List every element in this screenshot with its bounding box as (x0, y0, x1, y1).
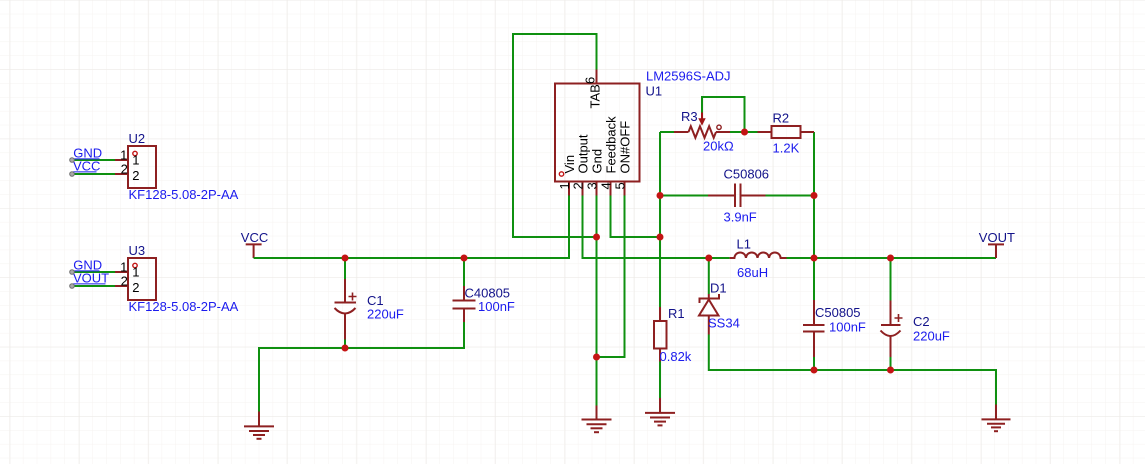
diode D1 SS34 (699, 281, 740, 335)
svg-text:U3: U3 (129, 243, 146, 258)
svg-text:VOUT: VOUT (979, 230, 1015, 245)
junction feedback (657, 234, 664, 241)
C2 plus sign (895, 314, 903, 322)
wire U1 Feedback pin4 (611, 196, 661, 238)
C1 plus sign (349, 293, 357, 301)
svg-text:R3: R3 (681, 109, 698, 124)
wire output rail to VOUT (787, 257, 997, 259)
svg-text:C2: C2 (913, 314, 930, 329)
net flag VOUT (979, 230, 1015, 258)
svg-text:2: 2 (132, 280, 139, 295)
wire C1 bottom (344, 340, 346, 349)
svg-text:Gnd: Gnd (589, 149, 604, 174)
U3 pin1 indicator circle (133, 263, 137, 267)
svg-text:SS34: SS34 (708, 316, 740, 331)
wire feedback rail vertical (659, 132, 661, 307)
svg-text:Output: Output (575, 134, 590, 173)
wire C50806 right lead (766, 195, 815, 197)
wire R3 to R2 (730, 131, 758, 133)
unconnected end dot U3 pin2 (70, 284, 75, 289)
U3 pin 1 stub (115, 271, 128, 273)
svg-text:VOUT: VOUT (73, 271, 109, 286)
junction C50806 right (811, 192, 818, 199)
svg-text:220uF: 220uF (367, 307, 404, 322)
unconnected end dot U2 pin1 (70, 158, 75, 163)
wire L1 left (709, 257, 730, 259)
svg-text:3.9nF: 3.9nF (724, 210, 757, 225)
svg-text:68uH: 68uH (737, 265, 768, 280)
D1 anode triangle (699, 300, 719, 316)
connector U2 body (115, 131, 239, 202)
svg-text:220uF: 220uF (913, 329, 950, 344)
U2 pin1 indicator circle (133, 151, 137, 155)
svg-text:L1: L1 (737, 237, 751, 252)
svg-text:100nF: 100nF (478, 299, 515, 314)
svg-text:KF128-5.08-2P-AA: KF128-5.08-2P-AA (129, 187, 239, 202)
capacitor C1 (polarized) (335, 279, 404, 340)
svg-text:D1: D1 (710, 281, 727, 296)
svg-text:KF128-5.08-2P-AA: KF128-5.08-2P-AA (129, 299, 239, 314)
svg-text:C50805: C50805 (815, 305, 861, 320)
svg-text:20kΩ: 20kΩ (703, 139, 734, 154)
net label GND (U3 pin1) (73, 258, 102, 273)
U2 pin 1 stub (115, 159, 128, 161)
svg-text:Feedback: Feedback (603, 116, 618, 174)
wire U3 pin2 (72, 285, 115, 287)
U1 pin 6 TAB stub (596, 70, 598, 84)
resistor R1 (654, 306, 692, 364)
net flag VCC (241, 230, 268, 258)
svg-text:VCC: VCC (73, 159, 100, 174)
junction L1 out (811, 255, 818, 262)
net label GND (U2 pin1) (73, 146, 102, 161)
unconnected end dot U3 pin1 (70, 270, 75, 275)
svg-text:R2: R2 (773, 111, 790, 126)
U2 pin 2 stub (115, 173, 128, 175)
svg-text:0.82k: 0.82k (660, 349, 692, 364)
junction C50806 left (657, 192, 664, 199)
wire D1 top (708, 258, 710, 294)
svg-text:1.2K: 1.2K (773, 141, 800, 156)
resistor R3 (trimmer) (674, 109, 734, 154)
unconnected end dot U2 pin2 (70, 172, 75, 177)
wire C2 top (890, 258, 892, 301)
wire C1 top (344, 258, 346, 279)
junction switch node D1/L1 (705, 255, 712, 262)
capacitor C40805 (453, 286, 515, 323)
svg-text:1: 1 (132, 153, 139, 168)
wire TAB loop to GND (513, 34, 597, 237)
wire U3 pin1 (72, 271, 115, 273)
svg-text:6: 6 (583, 77, 598, 84)
connector U3 body (115, 243, 239, 314)
C2 bottom arc plate (881, 331, 901, 337)
svg-text:5: 5 (613, 182, 628, 189)
junction C1 bottom (342, 345, 349, 352)
svg-text:VCC: VCC (241, 230, 268, 245)
svg-text:ON#OFF: ON#OFF (617, 121, 632, 174)
wire bottom-left ground rail (259, 322, 464, 412)
junction C40805 top (461, 255, 468, 262)
svg-text:1: 1 (120, 260, 127, 275)
wire U1 Output pin2 to switch node (583, 196, 709, 259)
svg-text:C50806: C50806 (724, 167, 770, 182)
inductor L1 (730, 237, 787, 281)
ground symbol (right) (982, 405, 1011, 432)
wire R3 wiper loop (702, 97, 745, 132)
wire C50805 bottom (813, 357, 815, 370)
junction R3 wiper R2 (741, 129, 748, 136)
R3 wiper arrow (701, 113, 703, 119)
svg-text:R1: R1 (668, 306, 685, 321)
U1 pin 3 stub (596, 182, 598, 196)
U1 pin 4 stub (610, 182, 612, 196)
U1 pin 2 stub (582, 182, 584, 196)
svg-text:1: 1 (120, 148, 127, 163)
wire U2 pin1 (72, 159, 115, 161)
junction ON#OFF-GND (593, 354, 600, 361)
C1 bottom arc plate (335, 308, 356, 314)
svg-text:2: 2 (132, 168, 139, 183)
svg-text:100nF: 100nF (829, 320, 866, 335)
svg-text:4: 4 (599, 182, 614, 189)
capacitor C50806 (708, 167, 769, 225)
wire C2 bottom (890, 357, 892, 370)
op-amp U1 LM2596S-ADJ body (555, 69, 731, 196)
ground symbol (left) (244, 412, 274, 439)
U3 pin 2 stub (115, 285, 128, 287)
wire C50806 left lead (660, 195, 708, 197)
U1 pin 1 stub (568, 182, 570, 196)
junction C2 bottom (887, 367, 894, 374)
wire U1 ON#OFF pin5 to gnd (597, 196, 625, 358)
R3 wiper terminal circle (717, 125, 721, 129)
wire C40805 top (463, 258, 465, 286)
wire U2 pin2 (72, 173, 115, 175)
wire R2 right vertical rail (813, 132, 815, 300)
svg-text:LM2596S-ADJ: LM2596S-ADJ (646, 69, 731, 84)
junction C50805 bottom (811, 367, 818, 374)
wire VCC rail to U1 Vin (254, 196, 569, 259)
capacitor C2 (polarized) (881, 301, 950, 358)
net label VCC (U2 pin2) (73, 159, 100, 174)
junction C2 top (887, 255, 894, 262)
svg-text:3: 3 (585, 182, 600, 189)
svg-text:2: 2 (121, 162, 128, 177)
junction TAB-GND (593, 234, 600, 241)
D1 schottky cathode bar (700, 294, 720, 303)
svg-text:TAB: TAB (588, 84, 603, 108)
svg-text:2: 2 (121, 274, 128, 289)
svg-text:U1: U1 (646, 84, 663, 99)
junction C1 top (342, 255, 349, 262)
wire R1 bottom (659, 362, 661, 399)
resistor R2 (758, 111, 815, 156)
ground symbol (R1) (645, 398, 675, 425)
svg-text:2: 2 (571, 182, 586, 189)
ground symbol (U1 gnd) (582, 406, 612, 433)
svg-text:U2: U2 (129, 131, 146, 146)
wire feedback rail to R3 (660, 131, 674, 133)
svg-text:1: 1 (132, 265, 139, 280)
U1 pin 5 stub (624, 182, 626, 196)
wire U1 Gnd pin3 down (596, 196, 598, 406)
capacitor C50805 (803, 300, 866, 357)
wire D1 bottom to ground rail (709, 335, 996, 405)
U1 pin1 indicator circle (559, 172, 563, 176)
net label VOUT (U3 pin2) (73, 271, 109, 286)
